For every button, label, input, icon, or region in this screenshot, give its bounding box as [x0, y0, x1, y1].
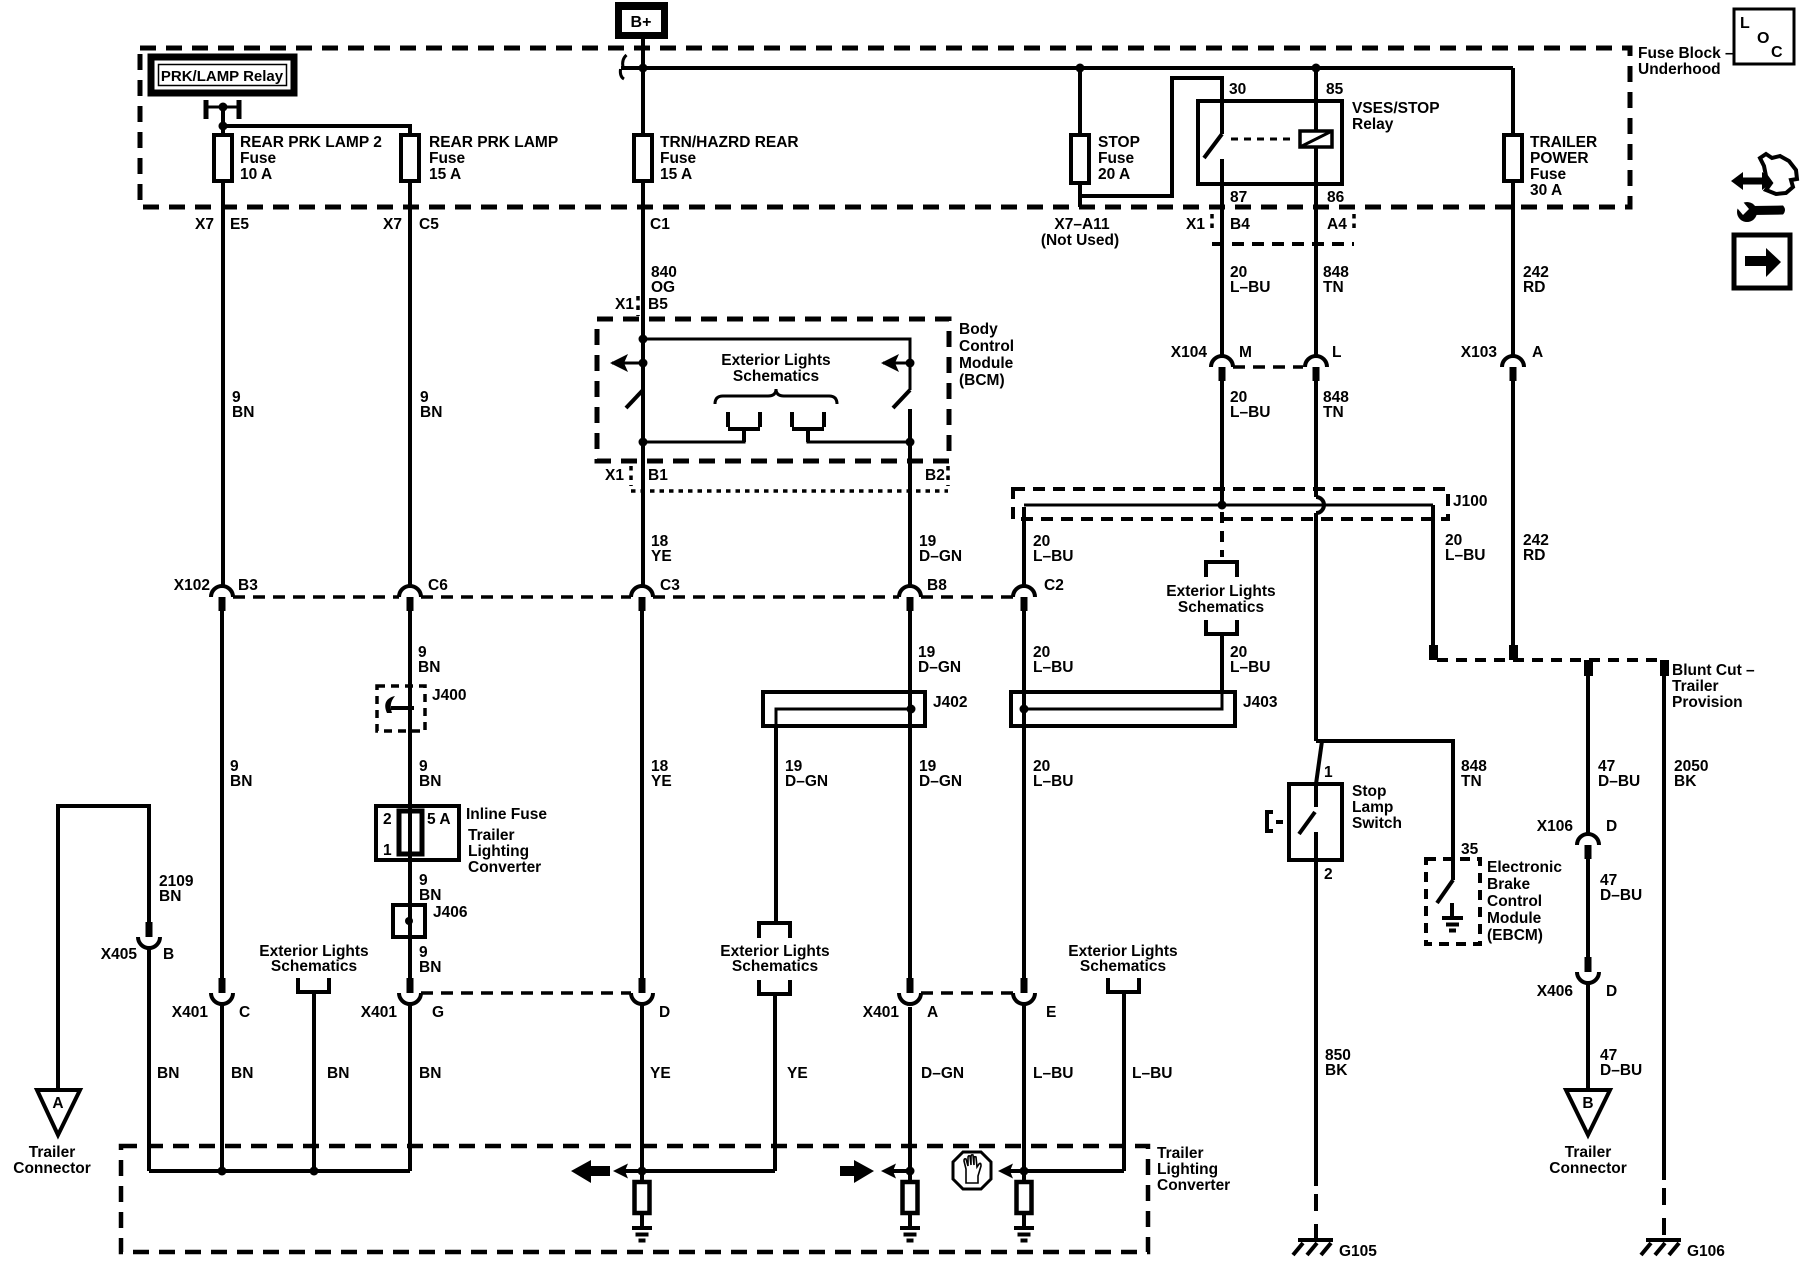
svg-text:30 A: 30 A [1530, 182, 1562, 199]
svg-text:Switch: Switch [1352, 815, 1402, 832]
svg-text:87: 87 [1230, 189, 1247, 206]
wire BCM internal top [643, 339, 910, 390]
svg-text:X401: X401 [361, 1004, 398, 1021]
splice J403 [1011, 692, 1278, 726]
wire label 2109 BN [159, 873, 194, 905]
svg-text:B5: B5 [648, 296, 668, 313]
wire 848 TN down with hop [1316, 381, 1324, 741]
brace BCM [715, 389, 837, 404]
wire X405 to bus [147, 948, 151, 1171]
svg-text:J400: J400 [432, 687, 466, 704]
svg-text:Schematics: Schematics [1080, 958, 1166, 975]
svg-text:BN: BN [232, 404, 254, 421]
wire label 9 BN col1 [232, 389, 254, 421]
inline fuse 5A box [376, 806, 547, 876]
wire dashed to G105 [1314, 1194, 1318, 1242]
svg-text:L–BU: L–BU [1230, 659, 1270, 676]
ground YE [632, 1228, 652, 1241]
svg-text:J403: J403 [1243, 694, 1278, 711]
svg-text:Exterior Lights: Exterior Lights [721, 352, 830, 369]
svg-text:30: 30 [1229, 81, 1246, 98]
resistor L-BU [1017, 1182, 1032, 1228]
svg-text:B: B [163, 946, 174, 963]
svg-text:Underhood: Underhood [1638, 61, 1721, 78]
svg-text:BK: BK [1674, 773, 1697, 790]
svg-text:BN: BN [419, 887, 441, 904]
svg-text:D–BU: D–BU [1600, 887, 1642, 904]
connector D [631, 978, 670, 1021]
connector C2 [1013, 577, 1064, 611]
wire label 20 L-BU (J100 right) [1445, 532, 1485, 564]
svg-text:L–BU: L–BU [1132, 1065, 1172, 1082]
svg-text:REAR PRK LAMP: REAR PRK LAMP [429, 134, 558, 151]
wire TRN fuse down [641, 68, 645, 586]
wire 47 D-BU mid [1586, 859, 1590, 957]
svg-text:C3: C3 [660, 577, 680, 594]
svg-text:Fuse: Fuse [660, 150, 697, 167]
connector B8 [899, 577, 947, 611]
PRK/LAMP Relay label [151, 57, 294, 93]
wire D to converter [640, 1004, 644, 1181]
wire col1 9 BN to X401 [220, 611, 224, 978]
node BCM bottom left [639, 438, 648, 447]
terminal cup BCM 2 [792, 412, 824, 442]
svg-text:X7: X7 [195, 216, 214, 233]
arrow BCM left out [610, 354, 648, 372]
wire label 848 TN (EBCM branch) [1461, 758, 1487, 790]
relay coil 85-86 [1231, 68, 1332, 207]
svg-text:85: 85 [1326, 81, 1344, 98]
arrow big left (YE) [571, 1160, 610, 1183]
wire dashed to G106 [1662, 1188, 1666, 1242]
svg-text:L: L [1332, 344, 1341, 361]
ground G106 [1641, 1240, 1725, 1260]
svg-text:L–BU: L–BU [1033, 1065, 1073, 1082]
svg-text:J406: J406 [433, 904, 468, 921]
svg-text:Stop: Stop [1352, 783, 1386, 800]
svg-text:15 A: 15 A [660, 166, 692, 183]
icon hotlink wrench [1731, 154, 1797, 222]
svg-text:L: L [1740, 15, 1750, 32]
node BCM top [639, 335, 648, 344]
stub exterior lights schematics (BN) [259, 943, 368, 1171]
trailer connector B triangle [1549, 1090, 1627, 1177]
wire label 9 BN below J400 [419, 758, 441, 790]
svg-text:G105: G105 [1339, 1243, 1377, 1260]
arrow BCM right out [881, 354, 915, 372]
connector X1 B1 B2 [605, 466, 948, 491]
wire label 18 YE [651, 533, 672, 565]
svg-text:Schematics: Schematics [271, 958, 357, 975]
svg-text:D–BU: D–BU [1600, 1062, 1642, 1079]
connector X1 B4 A4 [1186, 214, 1354, 244]
svg-text:TRN/HAZRD REAR: TRN/HAZRD REAR [660, 134, 799, 151]
node fuse branch [219, 122, 228, 131]
svg-text:Trailer: Trailer [1672, 678, 1719, 695]
wire 47 D-BU down [1586, 676, 1590, 834]
svg-text:Relay: Relay [1352, 116, 1394, 133]
node BCM bottom right [906, 438, 915, 447]
svg-text:1: 1 [1324, 764, 1333, 781]
svg-text:Exterior Lights: Exterior Lights [1166, 583, 1275, 600]
arrow small left + wire YE link [613, 1164, 775, 1179]
wire 242 RD down [1511, 381, 1515, 648]
wire STOP fuse to relay pin30 [1080, 78, 1222, 196]
svg-text:B: B [1582, 1095, 1593, 1112]
svg-text:M: M [1239, 344, 1252, 361]
svg-text:B2: B2 [925, 467, 945, 484]
connector C6 [399, 577, 448, 611]
connector X106 D [1537, 818, 1617, 859]
wire A to converter [908, 1007, 912, 1181]
svg-text:YE: YE [650, 1065, 671, 1082]
splice J400 [377, 686, 466, 731]
svg-text:TRAILER: TRAILER [1530, 134, 1597, 151]
wire label 848 TN [1323, 264, 1349, 296]
svg-text:Control: Control [1487, 893, 1542, 910]
svg-text:X1: X1 [615, 296, 634, 313]
trailer connector A triangle [13, 1090, 91, 1177]
wire label 840 OG [651, 264, 677, 296]
fuse STOP 20A [1071, 134, 1140, 183]
wire label 18 YE [651, 758, 672, 790]
wire J100 internal [1022, 507, 1026, 586]
svg-text:15 A: 15 A [429, 166, 461, 183]
connector X401 A [863, 978, 938, 1021]
svg-text:X102: X102 [174, 577, 210, 594]
connector X401 C [172, 978, 250, 1021]
svg-text:(BCM): (BCM) [959, 372, 1005, 389]
node L-BU [1020, 1167, 1029, 1176]
terminal blunt 47 D-BU [1584, 660, 1593, 676]
connector X406 D [1537, 957, 1617, 1000]
svg-text:5 A: 5 A [427, 811, 451, 828]
svg-text:E: E [1046, 1004, 1056, 1021]
svg-text:A: A [52, 1095, 63, 1112]
svg-text:Body: Body [959, 321, 998, 338]
resistor D-GN [903, 1182, 918, 1228]
svg-text:G: G [432, 1004, 444, 1021]
module BCM box [597, 319, 1014, 461]
wire BCM internal bottom left [643, 429, 744, 442]
fuse TRAILER POWER 30A [1504, 134, 1597, 199]
wire label 20 L-BU (J100 left) [1033, 533, 1073, 565]
wire label 20 L-BU (stub out) [1230, 644, 1270, 676]
switch BCM right [893, 390, 910, 442]
wire label 9 BN below inline fuse [419, 872, 441, 904]
wire TRAILER POWER fuse down [1511, 68, 1515, 355]
wire 20 L-BU to J100 [1220, 381, 1224, 505]
svg-text:BN: BN [419, 959, 441, 976]
connector row X401 dashed [421, 991, 1013, 995]
svg-text:Module: Module [959, 355, 1014, 372]
wire label 19 D-GN above J402 [918, 644, 961, 676]
wire 20 L-BU B4 down [1220, 207, 1224, 356]
ground G105 [1293, 1240, 1377, 1260]
text exterior lights schematics BCM [721, 352, 830, 385]
wire B2 out [908, 442, 912, 586]
wire label 242 RD [1523, 532, 1549, 564]
svg-text:Control: Control [959, 338, 1014, 355]
svg-text:B+: B+ [631, 14, 652, 31]
wire label 19 D-GN below J402 [919, 758, 962, 790]
wire dashed drop to stub [1220, 512, 1224, 557]
svg-text:BN: BN [159, 888, 181, 905]
node bus-STOP [1076, 64, 1085, 73]
svg-text:Fuse: Fuse [240, 150, 277, 167]
svg-text:L–BU: L–BU [1445, 547, 1485, 564]
svg-text:A4: A4 [1327, 216, 1347, 233]
svg-text:BK: BK [1325, 1062, 1348, 1079]
connector row X102 dashed [233, 595, 1013, 599]
node bus-85 [1312, 64, 1321, 73]
arrow small left + wire L-BU link [998, 1164, 1124, 1179]
svg-text:Blunt Cut –: Blunt Cut – [1672, 662, 1755, 679]
node bus stub [310, 1167, 319, 1176]
svg-text:VSES/STOP: VSES/STOP [1352, 100, 1440, 117]
trailer connector A feed [58, 806, 149, 1090]
svg-text:Connector: Connector [1549, 1160, 1627, 1177]
svg-text:YE: YE [651, 773, 672, 790]
svg-text:POWER: POWER [1530, 150, 1589, 167]
svg-text:Fuse: Fuse [429, 150, 466, 167]
wire J402 branch 19 D-GN [774, 726, 778, 921]
svg-text:D–GN: D–GN [919, 548, 962, 565]
ground L-BU [1014, 1228, 1034, 1241]
svg-text:Brake: Brake [1487, 876, 1530, 893]
wire 47 D-BU to trailer connector B [1586, 983, 1590, 1092]
ground D-GN [900, 1228, 920, 1241]
svg-text:C1: C1 [650, 216, 670, 233]
svg-text:Trailer: Trailer [29, 1144, 76, 1161]
svg-text:TN: TN [1323, 279, 1344, 296]
wire label 242 RD [1523, 264, 1549, 296]
wire label 20 L-BU [1230, 389, 1270, 421]
node D-GN [906, 1167, 915, 1176]
svg-text:Connector: Connector [13, 1160, 91, 1177]
wire label 19 D-GN (branch) [785, 758, 828, 790]
connector row dashed M-L [1233, 365, 1303, 369]
wire label 848 TN [1323, 389, 1349, 421]
svg-text:Trailer: Trailer [468, 827, 515, 844]
svg-text:1: 1 [383, 842, 392, 859]
svg-text:Converter: Converter [1157, 1177, 1230, 1194]
terminal blunt 242 RD [1509, 645, 1518, 660]
fuse REAR PRK LAMP 15A [401, 134, 558, 183]
wire col2 9 BN to J400 [408, 611, 412, 978]
terminal blunt L-BU [1429, 645, 1438, 660]
stub exterior lights schematics (L-BU pass-through) [1166, 562, 1275, 692]
arrow small left + wire D-GN link [881, 1164, 910, 1179]
svg-text:B8: B8 [927, 577, 947, 594]
svg-text:C2: C2 [1044, 577, 1064, 594]
svg-text:Trailer: Trailer [1565, 1144, 1612, 1161]
svg-text:BN: BN [418, 659, 440, 676]
svg-text:Lamp: Lamp [1352, 799, 1393, 816]
wire C to bus [220, 1004, 224, 1171]
icon hotlink arrow box [1734, 235, 1790, 288]
svg-text:Lighting: Lighting [1157, 1161, 1218, 1178]
svg-text:PRK/LAMP Relay: PRK/LAMP Relay [161, 68, 284, 85]
svg-text:X104: X104 [1171, 344, 1208, 361]
wire label 19 D-GN [919, 533, 962, 565]
wire J100 to blunt cut [1431, 505, 1435, 648]
wire col4 19 D-GN down [908, 611, 912, 978]
wire STOP fuse drop [1078, 68, 1082, 135]
wire label 47 D-BU [1600, 872, 1642, 904]
svg-text:Fuse: Fuse [1530, 166, 1567, 183]
svg-text:A: A [1532, 344, 1543, 361]
wire label 9 BN below J406 [419, 944, 441, 976]
svg-text:OG: OG [651, 279, 675, 296]
svg-text:L–BU: L–BU [1230, 404, 1270, 421]
svg-text:X7–A11: X7–A11 [1054, 216, 1110, 233]
terminal blunt 2050 BK [1660, 660, 1669, 676]
wire label 9 BN above J400 [418, 644, 440, 676]
wire G to bus [408, 1004, 412, 1171]
blunt cut dashed line [1437, 658, 1664, 662]
module EBCM [1426, 841, 1562, 944]
svg-text:X401: X401 [172, 1004, 209, 1021]
svg-text:(EBCM): (EBCM) [1487, 927, 1543, 944]
wire B1 out [641, 442, 645, 586]
stub exterior lights schematics (L-BU) [1068, 943, 1177, 1171]
trailer lighting converter box [121, 1145, 1230, 1252]
svg-text:X106: X106 [1537, 818, 1574, 835]
terminal clip at B+ entry [620, 55, 626, 79]
svg-text:C: C [239, 1004, 250, 1021]
node bus-TRN [639, 64, 648, 73]
splice J406 [393, 904, 468, 937]
svg-text:B4: B4 [1230, 216, 1250, 233]
svg-text:D: D [1606, 818, 1617, 835]
svg-text:Schematics: Schematics [733, 368, 819, 385]
pin X1 B5 [615, 296, 668, 316]
svg-text:X405: X405 [101, 946, 138, 963]
svg-text:(Not Used): (Not Used) [1041, 232, 1119, 249]
wire B5 into BCM [641, 316, 645, 390]
svg-text:20 A: 20 A [1098, 166, 1130, 183]
svg-text:BN: BN [327, 1065, 349, 1082]
wire X7-A11 stub [1078, 196, 1082, 207]
wire label 47 D-BU [1600, 1047, 1642, 1079]
wire label 9 BN [230, 758, 252, 790]
wire branch to second fuse [223, 126, 410, 135]
connector X104 L [1305, 344, 1341, 381]
svg-text:BN: BN [419, 1065, 441, 1082]
connector X104 M [1171, 344, 1252, 381]
wire 2050 BK down [1662, 676, 1666, 1180]
wire main bus B+ [621, 66, 1513, 70]
connector X102 B3 [174, 577, 258, 611]
svg-text:D–GN: D–GN [918, 659, 961, 676]
svg-text:A: A [927, 1004, 938, 1021]
switch BCM left [626, 390, 643, 442]
label blunt cut [1672, 662, 1755, 711]
wire label 20 L-BU above J403 [1033, 644, 1073, 676]
wire label 850 BK [1325, 1047, 1351, 1079]
svg-text:E5: E5 [230, 216, 249, 233]
icon stop hand octagon [953, 1152, 991, 1189]
relay contact 30-87 [1204, 101, 1222, 207]
connector C3 [631, 577, 680, 611]
svg-text:YE: YE [787, 1065, 808, 1082]
svg-text:D: D [659, 1004, 670, 1021]
fuse REAR PRK LAMP 2 10A [214, 134, 382, 183]
wire B+ feed down [641, 39, 645, 135]
svg-text:REAR PRK LAMP 2: REAR PRK LAMP 2 [240, 134, 382, 151]
resistor YE [635, 1182, 650, 1228]
svg-text:D–GN: D–GN [785, 773, 828, 790]
wire label 9 BN col2 [420, 389, 442, 421]
svg-text:L–BU: L–BU [1033, 773, 1073, 790]
svg-text:Electronic: Electronic [1487, 859, 1562, 876]
svg-text:C5: C5 [419, 216, 439, 233]
svg-text:B3: B3 [238, 577, 258, 594]
svg-text:BN: BN [157, 1065, 179, 1082]
fuse TRN/HAZRD REAR 15A [634, 134, 799, 183]
relay PRK/LAMP contact [204, 100, 242, 135]
svg-text:D–BU: D–BU [1598, 773, 1640, 790]
svg-text:X7: X7 [383, 216, 402, 233]
wire BCM internal bottom right [808, 429, 910, 442]
svg-text:Schematics: Schematics [1178, 599, 1264, 616]
wire label 20 L-BU below J403 [1033, 758, 1073, 790]
connector X405 B [101, 922, 174, 963]
svg-text:C6: C6 [428, 577, 448, 594]
svg-text:86: 86 [1327, 189, 1345, 206]
svg-text:B1: B1 [648, 467, 668, 484]
battery B+ terminal [615, 2, 668, 39]
svg-text:X406: X406 [1537, 983, 1574, 1000]
wire label 20 L-BU [1230, 264, 1270, 296]
svg-text:Module: Module [1487, 910, 1542, 927]
wire 848 TN to switch and EBCM [1316, 741, 1453, 859]
svg-text:Provision: Provision [1672, 694, 1743, 711]
svg-text:J402: J402 [933, 694, 967, 711]
wire 848 TN A4 down [1314, 207, 1318, 356]
svg-text:Fuse Block –: Fuse Block – [1638, 45, 1734, 62]
svg-text:D–GN: D–GN [919, 773, 962, 790]
svg-text:X1: X1 [605, 467, 624, 484]
wire col3 18 YE down [640, 611, 644, 978]
node J100 M [1218, 501, 1227, 510]
svg-text:TN: TN [1323, 404, 1344, 421]
svg-text:10 A: 10 A [240, 166, 272, 183]
node bus C [218, 1167, 227, 1176]
switch stop lamp [1267, 741, 1402, 883]
svg-text:TN: TN [1461, 773, 1482, 790]
svg-text:L–BU: L–BU [1230, 279, 1270, 296]
svg-text:C: C [1771, 44, 1783, 61]
svg-text:Converter: Converter [468, 859, 541, 876]
connector J100 box [1013, 489, 1487, 519]
node YE [638, 1167, 647, 1176]
svg-text:Lighting: Lighting [468, 843, 529, 860]
svg-text:RD: RD [1523, 547, 1545, 564]
wire col5 20 L-BU down [1022, 611, 1026, 978]
svg-text:D: D [1606, 983, 1617, 1000]
pin X7-A11 not used [1041, 216, 1119, 249]
svg-text:Trailer: Trailer [1157, 1145, 1204, 1162]
svg-text:STOP: STOP [1098, 134, 1140, 151]
relay VSES/STOP [1198, 81, 1440, 206]
svg-text:35: 35 [1461, 841, 1479, 858]
stub exterior lights schematics (D-GN in / YE out) [720, 923, 829, 1171]
connector E [1013, 978, 1056, 1021]
wire fuse2 down [408, 135, 412, 586]
wire label 2050 BK [1674, 758, 1708, 790]
